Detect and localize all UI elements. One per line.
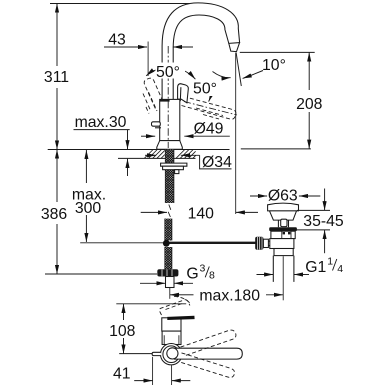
svg-text:140: 140 [188,205,215,222]
top view: solid lever bar [167,316,194,320]
drain upper pipe [270,239,294,249]
svg-text:386: 386 [41,206,68,223]
drain tailpipe [273,256,294,282]
svg-text:G1: G1 [305,259,326,276]
drain mid pipe [274,249,293,256]
top view: dashed lower lever [180,353,235,378]
hose braid lower [165,219,172,241]
wire top extension line [50,3,193,5]
svg-text:50°: 50° [156,64,180,81]
hose braid upper [165,150,174,204]
svg-text:300: 300 [75,200,102,217]
spout gooseneck outer [162,3,240,100]
dimension 108 [123,304,125,354]
dimension max30 arrows [127,130,129,176]
spout gooseneck inner [173,15,229,99]
dimension 43 [104,46,193,48]
arc 10deg [213,72,231,78]
wire right lever axis dashdot [184,102,237,116]
dimension o49 [141,135,230,137]
top view: left tab [152,352,161,355]
label G38 [186,263,215,283]
svg-text:35-45: 35-45 [303,213,344,230]
dimension o63 [250,195,320,197]
svg-text:108: 108 [109,323,136,340]
svg-text:max.30: max.30 [75,114,127,131]
label 50deg second [193,81,223,98]
top view: body lower box [162,331,181,344]
spout gooseneck body fill [162,3,240,100]
drain gasket [269,227,297,231]
wire max30 underline leader [74,129,130,131]
drain flange [268,203,299,211]
svg-text:8: 8 [209,270,215,282]
drain tab [281,219,287,226]
pop-up rod [166,242,256,244]
drain taper [270,211,297,220]
arc 50deg second [209,91,215,102]
top view: lever bar right [174,348,242,359]
top view: body upper box [162,318,181,331]
top view: boss small circle [167,348,178,359]
dimension 41 [134,380,190,382]
arc 50deg first [146,67,195,79]
wire 41 extension right [171,365,173,385]
wire supply axis extension [169,288,171,299]
wire 43 extension [147,42,149,77]
svg-text:41: 41 [113,366,131,383]
spout outlet mousseur [229,43,240,52]
mounting washer [161,163,187,166]
dimension G38 arrows [140,282,193,284]
body top dark band [160,99,170,102]
deck hatch right [176,150,196,159]
deck bottom line [118,157,196,159]
dimension G114 arrows [257,274,310,276]
dimension o34 leader [145,155,232,169]
svg-text:Ø63: Ø63 [268,188,298,205]
wire 3545 extension top [297,209,330,211]
lever dashed right position (behind body) [182,97,236,120]
dimension 208 [308,52,310,148]
nut tab [175,170,179,174]
svg-text:Ø49: Ø49 [194,120,224,137]
top view: boss outer circle [161,344,182,365]
dimension 3545 [324,189,326,254]
wire outlet axis [235,53,237,215]
G38 tube [166,277,175,288]
svg-text:3: 3 [200,263,206,275]
wire 386 bottom extension [45,273,157,275]
svg-text:4: 4 [337,263,343,275]
lever solid [178,84,189,103]
top view: 108 extension top [116,303,186,305]
top view: column inner lines [164,335,179,344]
hose break marks [168,205,171,218]
drain neck [278,220,288,227]
faucet base [157,141,183,150]
dimension 140 [141,211,258,213]
top view: dashed upper lever [181,330,236,356]
dimension max180 [170,294,283,296]
label G114 [305,256,343,277]
hose braid below joint [165,247,172,269]
dimension 311 line [56,4,58,150]
wire 208 top extension [240,51,315,53]
faucet body [160,99,180,140]
svg-text:10°: 10° [262,57,286,74]
top view: boss inner circle [163,346,180,363]
deck hatch left [144,150,165,159]
wire 108 extension bottom [119,353,158,355]
wire 10deg slant line [236,53,241,87]
wire pop-up rod thin extension [80,242,163,244]
svg-text:Ø34: Ø34 [202,154,232,171]
svg-text:max.180: max.180 [199,287,260,304]
svg-text:311: 311 [44,69,69,86]
svg-text:50°: 50° [193,81,217,98]
dimension 386 line [56,150,58,275]
label 50deg first [156,63,186,82]
rod clamp knob [255,237,271,250]
wire 10deg leader [243,71,263,79]
dimension max300 line [85,150,87,242]
wire 41 extension left [152,357,154,385]
svg-text:G: G [186,266,198,283]
svg-text:43: 43 [108,32,126,49]
deck top line [48,149,230,151]
junction ball joint [163,240,170,247]
drain locknut [271,231,295,238]
svg-text:208: 208 [296,96,323,113]
pop-up knob tab [152,122,162,128]
wire centerline faucet axis [167,46,169,148]
svg-text:1: 1 [327,256,333,268]
lever dashed left position (behind tube) [143,78,163,113]
wire 3545 extension bottom [294,229,330,231]
mounting nut [163,166,184,170]
top view: dashed raised lever [159,296,190,315]
wire drain axis [282,256,284,300]
G38 connector nut [157,269,178,276]
deck top line right part [241,148,311,150]
top view: logo marks [169,333,177,335]
